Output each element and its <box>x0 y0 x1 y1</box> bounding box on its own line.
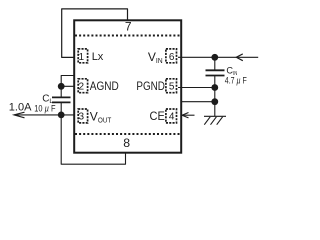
wire CL top lead <box>60 86 62 97</box>
svg-text:10 µ F: 10 µ F <box>34 103 56 113</box>
svg-text:AGND: AGND <box>90 79 119 93</box>
pin 5 label PGND <box>136 79 165 93</box>
pin 6 label VIN <box>148 50 163 65</box>
svg-text:4: 4 <box>169 112 175 123</box>
pin 1 number <box>79 52 85 63</box>
wire VOUT output line <box>14 114 78 116</box>
capacitor CIN <box>206 70 225 75</box>
svg-text:Lx: Lx <box>92 51 104 63</box>
svg-text:8: 8 <box>123 136 130 150</box>
node AGND right junction <box>211 98 218 105</box>
svg-text:1.0A: 1.0A <box>9 101 32 113</box>
wire CIN top lead <box>214 57 216 70</box>
CE enable arrow pointing into pin 4 <box>182 113 195 118</box>
svg-text:CE: CE <box>150 109 165 123</box>
svg-text:4.7 µ F: 4.7 µ F <box>225 76 247 86</box>
input arrowhead pointing left on VIN line <box>236 54 243 61</box>
IC U1 package outline <box>74 20 181 152</box>
wire CIN bottom lead to PGND junction <box>214 76 216 88</box>
svg-text:2: 2 <box>79 82 85 93</box>
svg-text:6: 6 <box>169 52 175 63</box>
pin 4 label CE <box>150 109 165 123</box>
pin 1 label Lx <box>92 51 104 63</box>
pin 3 label VOUT <box>90 110 112 125</box>
pin 4 number <box>169 112 175 123</box>
pin 4 box <box>166 109 177 123</box>
pin 3 number <box>79 112 85 123</box>
node VOUT junction <box>58 112 65 119</box>
wire CL bottom lead <box>60 102 62 115</box>
wire Lx pin1 loop to pad7 <box>62 9 128 58</box>
pad 8 label <box>123 136 130 150</box>
capacitor CL <box>52 97 71 102</box>
pin 1 box <box>78 49 87 63</box>
capacitor CIN value 4.7 uF <box>225 76 247 86</box>
wire pad8 to VOUT junction <box>61 115 125 164</box>
pin 5 box <box>166 79 177 93</box>
svg-text:3: 3 <box>79 112 85 123</box>
pin 6 number <box>169 52 175 63</box>
ground symbol <box>204 116 226 124</box>
capacitor CIN ref label <box>226 66 237 77</box>
node VIN junction <box>211 54 218 61</box>
wire PGND pin5 to junction <box>178 87 215 89</box>
pin 6 box <box>166 49 177 63</box>
capacitor CL value 10 uF <box>34 103 56 113</box>
pin 2 number <box>79 82 85 93</box>
svg-text:1: 1 <box>79 52 85 63</box>
pad 7 dotted boundary <box>75 35 180 37</box>
capacitor CL ref label <box>42 93 53 105</box>
svg-text:7: 7 <box>125 20 132 34</box>
output current label 1.0A <box>9 101 32 113</box>
wire PGND junction down to AGND junction <box>214 88 216 102</box>
wire AGND pin2 to left junction <box>61 85 77 87</box>
node PGND junction <box>211 84 218 91</box>
svg-text:5: 5 <box>169 82 175 93</box>
pin 2 label AGND <box>90 79 119 93</box>
pin 5 number <box>169 82 175 93</box>
wire AGND junction up-over-down to right ground bus <box>61 76 215 102</box>
node AGND left junction <box>58 83 65 90</box>
pad 8 dotted boundary <box>75 133 180 135</box>
wire VIN pin6 to input line <box>178 56 258 58</box>
output arrowhead pointing left <box>14 112 25 118</box>
svg-text:PGND: PGND <box>136 79 165 93</box>
wire AGND junction down to ground <box>214 102 216 117</box>
pin 2 box <box>78 79 87 93</box>
pin 3 box <box>78 109 87 123</box>
pad 7 label <box>125 20 132 34</box>
